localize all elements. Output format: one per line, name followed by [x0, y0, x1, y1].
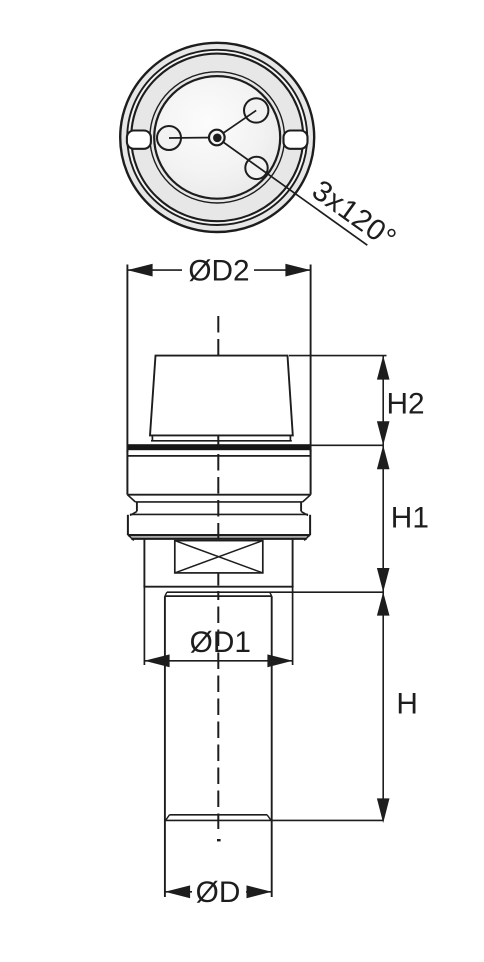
leader line 3x120 [217, 138, 367, 246]
tall section bottom [127, 494, 310, 496]
OD arrow left [165, 885, 190, 898]
neck right side [300, 502, 302, 512]
H1 dim line [382, 445, 384, 592]
OD dim line left [165, 891, 192, 893]
inner face circle [154, 76, 280, 199]
middle body left side [143, 539, 145, 587]
crossed box diag 2 [175, 541, 263, 573]
OD2 arrow left [127, 264, 152, 277]
OD2 ext line right [310, 265, 312, 453]
hole lower right [245, 157, 267, 179]
shaft bottom line with H extension [165, 819, 384, 821]
flange right side [309, 515, 311, 536]
hole upper right [244, 98, 268, 122]
shaft lip chamfer right [267, 815, 271, 821]
tall section right side [310, 450, 312, 495]
taper lip bottom [151, 440, 292, 442]
H2 dim line [382, 356, 384, 446]
neck chamfer right [303, 495, 311, 502]
flange left side [127, 515, 129, 536]
flange chamfer right [301, 511, 308, 515]
OD1 arrow right [267, 654, 292, 667]
center circle [209, 130, 225, 146]
shaft right side and OD extension [271, 596, 273, 897]
OD1 ext line left [143, 587, 145, 665]
neck top line [135, 501, 302, 503]
shaft top chamfer left [165, 592, 167, 596]
H arrow up [377, 592, 390, 616]
shaft top line with H1 extension [167, 591, 384, 593]
taper lip right wall [289, 435, 291, 440]
H2 arrow up [377, 356, 390, 380]
shaft lip line [170, 814, 268, 816]
OD1 dim line [144, 660, 292, 662]
taper knob [150, 356, 293, 436]
hole left [157, 126, 181, 150]
crossed box diag 1 [175, 541, 263, 573]
neck left side [136, 502, 138, 512]
OD2 dim line right [254, 269, 311, 271]
flange bottom line [128, 534, 310, 536]
middle body right side [292, 539, 294, 587]
flange corner diag left [129, 535, 134, 540]
H dim line [382, 592, 384, 820]
svg-text:ØD2: ØD2 [188, 254, 249, 287]
shaft left side and OD extension [164, 596, 166, 897]
OD2 ext line left [126, 265, 128, 453]
center dot [213, 134, 222, 143]
centerline [217, 316, 219, 591]
svg-text:H1: H1 [391, 502, 429, 535]
svg-text:ØD1: ØD1 [190, 626, 251, 659]
OD arrow right [247, 885, 272, 898]
band underline [127, 455, 310, 457]
OD1 ext line right [292, 587, 294, 665]
rim inner circle [127, 50, 307, 225]
shaft top second line [165, 595, 272, 597]
inner thin circle [150, 72, 285, 203]
black band [127, 444, 310, 450]
H2 top ext line [289, 355, 387, 357]
H2 arrow down [377, 421, 390, 445]
H1 arrow down [377, 568, 390, 592]
H1 arrow up [377, 445, 390, 469]
OD2 dim line left [127, 269, 182, 271]
outer rim circle [120, 43, 314, 232]
spoke to left hole [169, 137, 217, 140]
shaft top chamfer right [270, 592, 272, 596]
left slot [127, 131, 151, 149]
centerline lower part [217, 591, 219, 829]
crossed box [175, 541, 263, 573]
flange chamfer left [130, 511, 137, 515]
svg-text:ØD: ØD [196, 876, 241, 909]
spoke to upper right hole [217, 110, 256, 137]
svg-text:H: H [396, 687, 418, 720]
OD dim line right [246, 891, 272, 893]
neck chamfer left [127, 495, 135, 502]
OD1 arrow left [144, 654, 169, 667]
flange shadow line [131, 538, 306, 540]
middle body bottom [143, 586, 293, 588]
flange top line [130, 513, 308, 515]
centerline end dot [217, 839, 221, 841]
H arrow down [377, 798, 390, 823]
svg-text:3x120°: 3x120° [306, 174, 402, 256]
taper lip left wall [151, 435, 153, 440]
shaft lip chamfer left [166, 815, 170, 821]
flange corner diag right [304, 535, 309, 540]
tall section left side [126, 450, 128, 495]
OD2 arrow right [285, 264, 310, 277]
H2 bottom ext line [311, 444, 384, 446]
right slot [284, 131, 308, 149]
svg-text:H2: H2 [387, 387, 425, 420]
flange circle [131, 54, 303, 222]
